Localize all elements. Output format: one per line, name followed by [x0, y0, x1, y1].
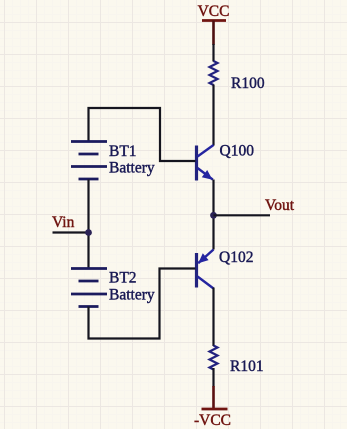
svg-text:R100: R100 [231, 75, 265, 92]
resistor R101 [210, 346, 264, 376]
svg-text:Q100: Q100 [220, 143, 255, 160]
svg-text:Vin: Vin [52, 214, 75, 231]
svg-text:R101: R101 [230, 358, 264, 375]
svg-text:Q102: Q102 [219, 249, 253, 266]
transistor Q102 [197, 249, 254, 289]
wire BT1 top loop to Q100 base [89, 108, 196, 161]
wire Q102 collector to R101 [212, 288, 214, 347]
svg-text:Vout: Vout [265, 197, 295, 214]
wire Q100 emitter to Q102 emitter [212, 180, 214, 250]
resistor R100 [210, 61, 265, 92]
wire R101 to -VCC [212, 368, 214, 387]
svg-text:-VCC: -VCC [194, 412, 231, 429]
wire VCC to R100 [212, 44, 214, 62]
battery BT2 [71, 269, 155, 307]
power symbol -VCC [194, 386, 231, 429]
node Vout [210, 197, 295, 219]
node Vin [52, 214, 92, 236]
svg-text:BT2: BT2 [109, 270, 137, 287]
wire R100 to Q100 collector [212, 85, 214, 146]
battery BT1 [71, 142, 155, 180]
svg-text:BT1: BT1 [109, 143, 137, 160]
wire BT1 bottom to BT2 top [87, 180, 89, 269]
svg-text:Battery: Battery [109, 160, 155, 177]
svg-text:VCC: VCC [198, 3, 230, 20]
svg-text:Battery: Battery [109, 287, 155, 304]
wire BT2 bottom loop to Q102 base [89, 269, 196, 339]
power symbol VCC [198, 3, 230, 45]
transistor Q100 [197, 143, 255, 181]
